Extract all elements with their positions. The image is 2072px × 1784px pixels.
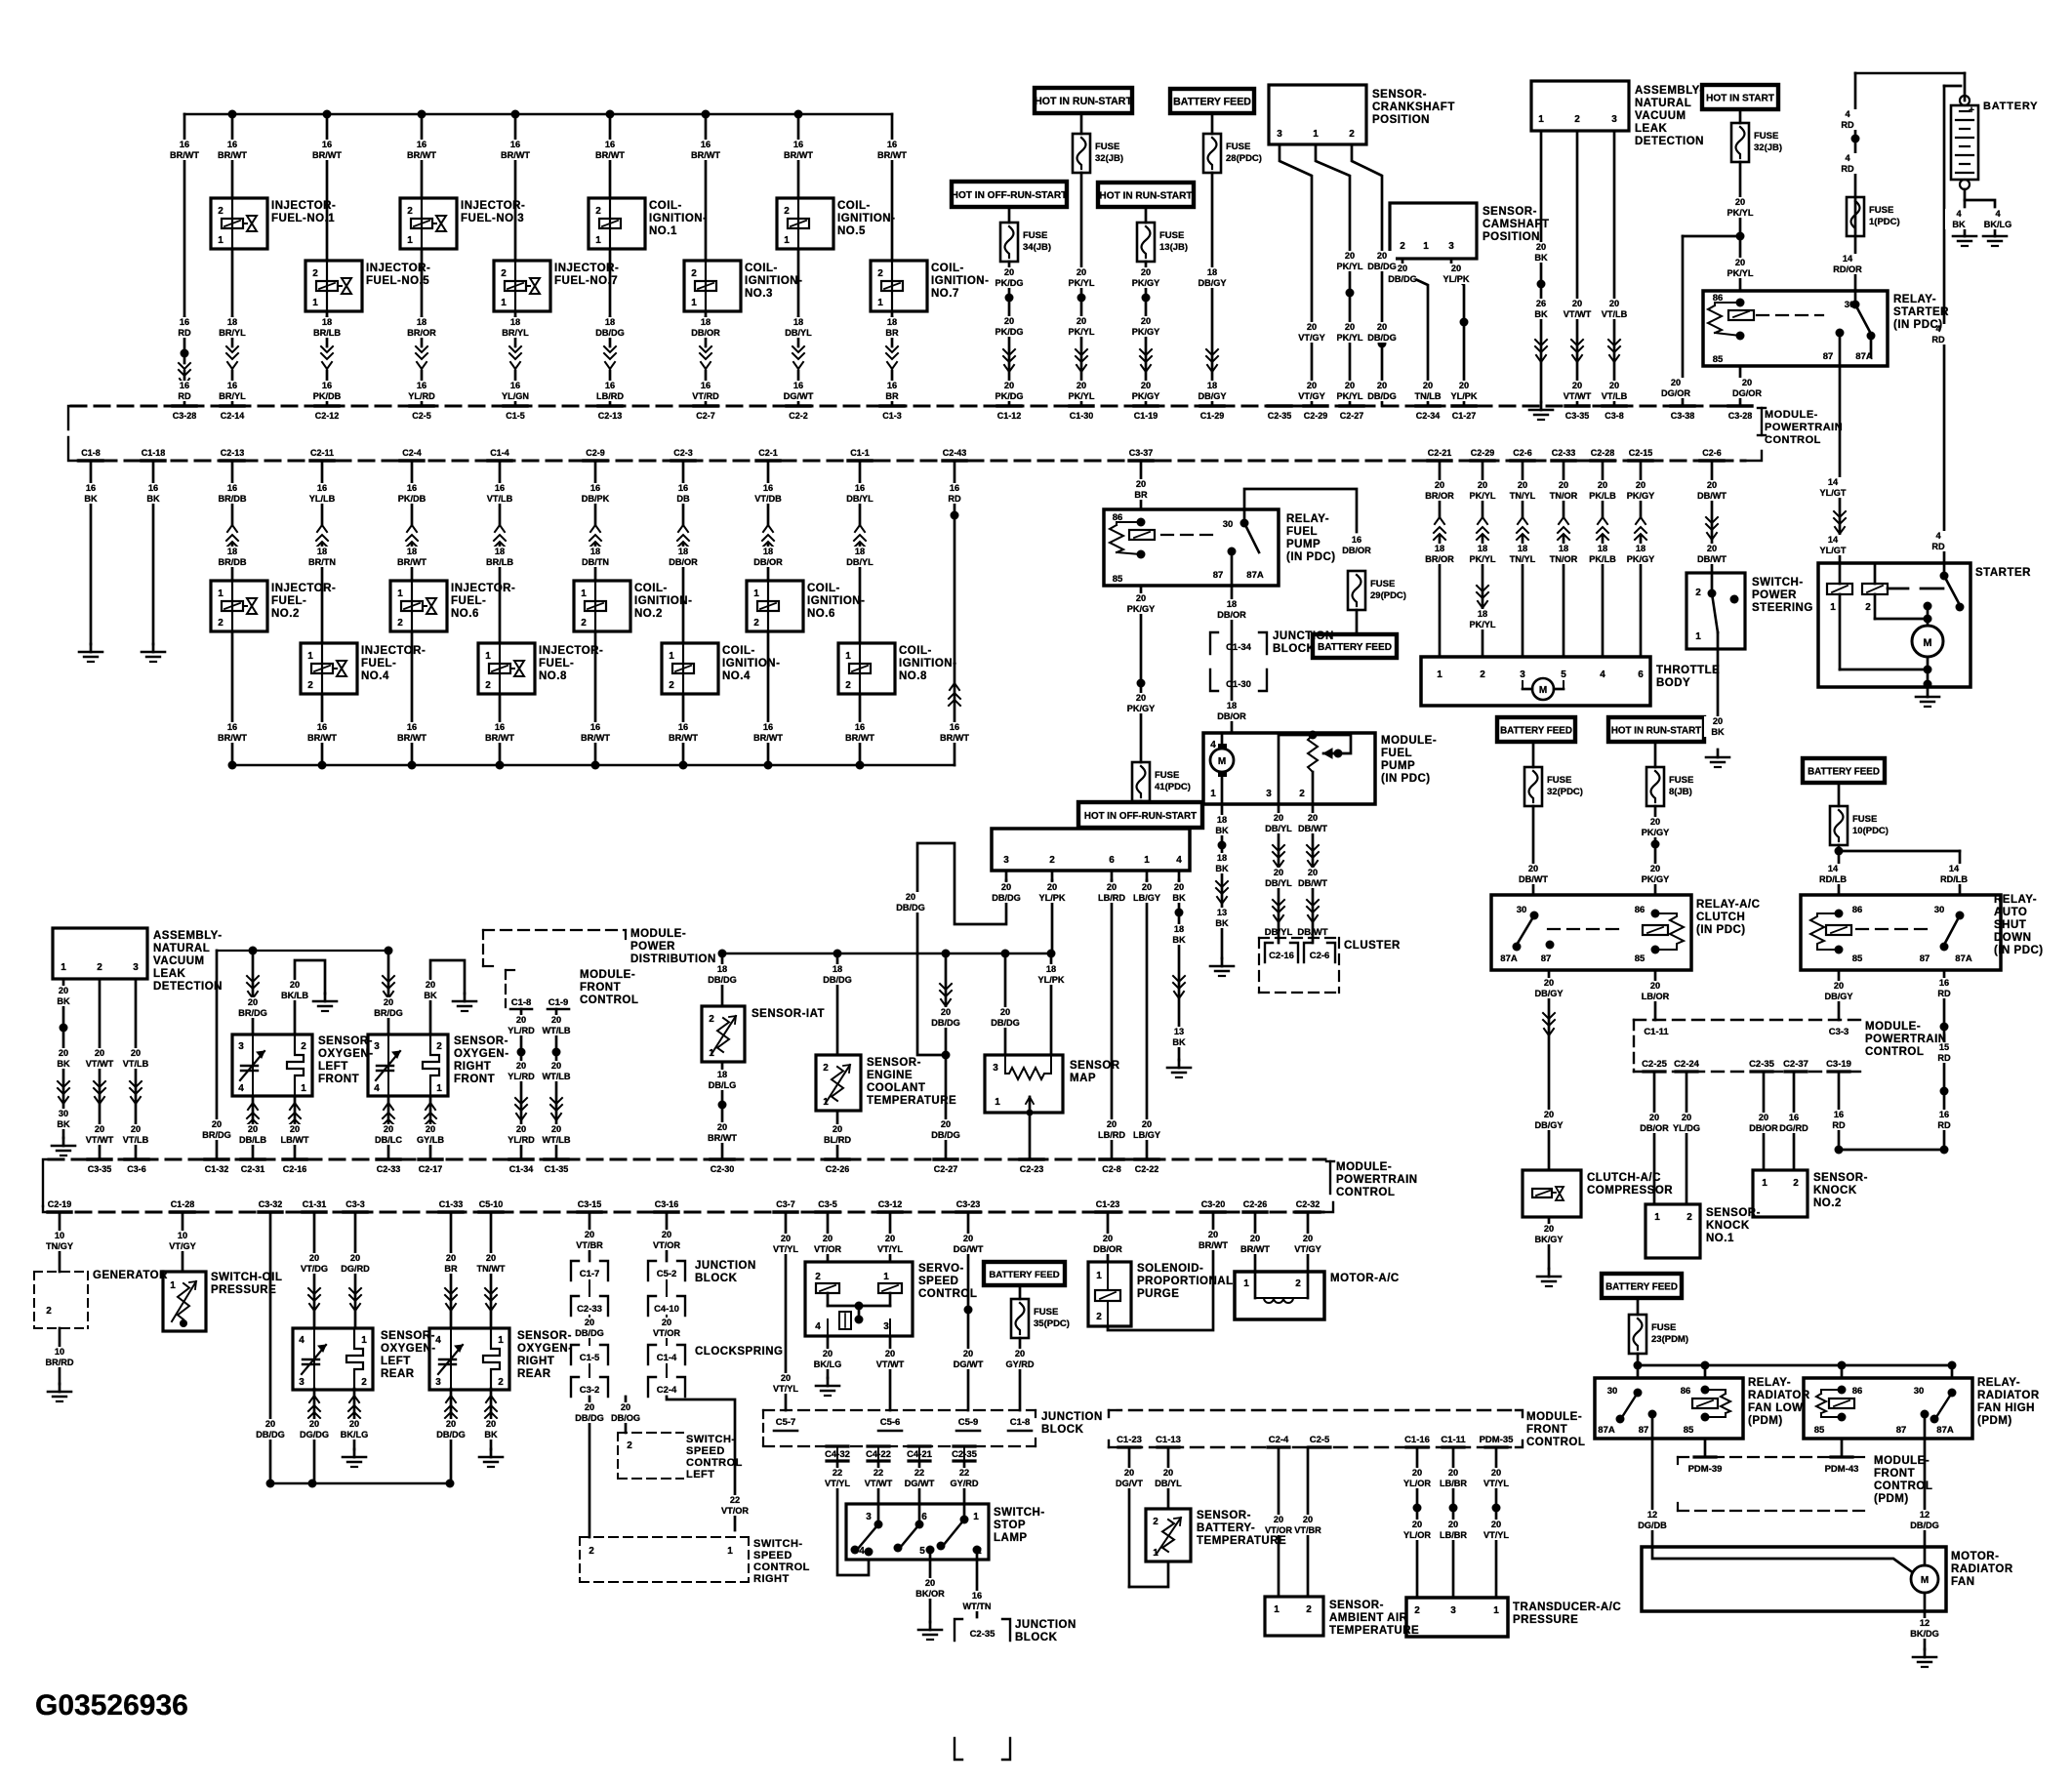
svg-text:20: 20 [426, 1124, 435, 1134]
svg-text:BK: BK [57, 1119, 70, 1129]
svg-text:NO.4: NO.4 [361, 670, 389, 682]
svg-text:20: 20 [350, 1253, 360, 1263]
svg-text:IGNITION-: IGNITION- [722, 658, 780, 669]
svg-text:5: 5 [1561, 669, 1566, 680]
svg-text:DB/OR: DB/OR [1093, 1244, 1122, 1254]
svg-text:YL/GT: YL/GT [1819, 488, 1846, 498]
svg-text:2: 2 [691, 268, 697, 279]
svg-text:20: 20 [1435, 480, 1444, 490]
svg-text:COIL-: COIL- [745, 263, 778, 274]
svg-text:MODULE-: MODULE- [1865, 1021, 1921, 1033]
svg-text:FUSE: FUSE [1651, 1322, 1676, 1333]
svg-text:20: 20 [1308, 868, 1318, 877]
svg-text:C2-29: C2-29 [1304, 411, 1328, 421]
svg-text:DB/DG: DB/DG [708, 975, 737, 985]
svg-text:COIL-: COIL- [722, 645, 755, 657]
svg-text:20: 20 [1136, 479, 1146, 489]
svg-text:BR/WT: BR/WT [877, 150, 907, 160]
svg-text:5: 5 [919, 1546, 925, 1557]
svg-text:1: 1 [709, 1048, 714, 1059]
svg-text:SOLENOID-: SOLENOID- [1137, 1263, 1203, 1275]
svg-text:BR/WT: BR/WT [218, 150, 247, 160]
svg-text:VT/OR: VT/OR [721, 1506, 749, 1516]
svg-text:CLOCKSPRING: CLOCKSPRING [695, 1346, 783, 1358]
svg-text:SENSOR-: SENSOR- [517, 1330, 572, 1342]
svg-text:1: 1 [397, 588, 403, 599]
svg-text:VT/OR: VT/OR [653, 1328, 680, 1338]
svg-text:SENSOR-: SENSOR- [867, 1057, 921, 1069]
svg-text:DB/OR: DB/OR [753, 557, 783, 567]
svg-text:RD: RD [1841, 164, 1854, 174]
svg-text:DB/WT: DB/WT [1298, 824, 1327, 833]
svg-text:C3-20: C3-20 [1201, 1199, 1226, 1209]
svg-text:C2-13: C2-13 [221, 448, 245, 458]
svg-text:YL/RD: YL/RD [508, 1072, 535, 1081]
svg-text:2: 2 [976, 1546, 982, 1557]
svg-text:1(PDC): 1(PDC) [1869, 217, 1900, 227]
svg-text:FUEL-NO.5: FUEL-NO.5 [366, 275, 429, 287]
svg-text:16: 16 [322, 140, 332, 149]
svg-text:DB/DG: DB/DG [896, 903, 925, 912]
svg-text:PK/YL: PK/YL [1469, 491, 1495, 501]
svg-text:1: 1 [436, 1083, 442, 1094]
svg-text:2: 2 [498, 1377, 504, 1388]
svg-text:2: 2 [1574, 114, 1580, 125]
svg-text:3: 3 [1520, 669, 1525, 680]
svg-text:18: 18 [1636, 544, 1645, 553]
svg-text:20: 20 [551, 1061, 561, 1071]
svg-text:IGNITION-: IGNITION- [634, 595, 692, 607]
svg-text:BK: BK [484, 1430, 498, 1439]
svg-text:(IN PDC): (IN PDC) [1893, 319, 1943, 331]
svg-text:3: 3 [993, 1063, 998, 1074]
svg-text:INJECTOR-: INJECTOR- [271, 200, 336, 212]
svg-text:1: 1 [823, 1097, 829, 1108]
svg-text:C1-30: C1-30 [1070, 411, 1094, 421]
svg-text:VT/RD: VT/RD [692, 391, 719, 401]
svg-text:SENSOR-: SENSOR- [1706, 1207, 1761, 1219]
svg-text:BR/WT: BR/WT [691, 150, 720, 160]
svg-text:DB/WT: DB/WT [1298, 878, 1327, 888]
svg-text:87A: 87A [1598, 1425, 1615, 1436]
svg-text:AUTO: AUTO [1994, 907, 2027, 918]
svg-text:SWITCH-OIL: SWITCH-OIL [211, 1272, 282, 1283]
svg-text:20: 20 [1141, 267, 1151, 277]
svg-text:CONTROL: CONTROL [686, 1457, 743, 1469]
svg-text:COIL-: COIL- [634, 583, 668, 594]
svg-text:C3-38: C3-38 [1671, 411, 1695, 421]
svg-text:BK: BK [424, 991, 437, 1000]
svg-text:20: 20 [1412, 1468, 1422, 1478]
svg-text:FUSE: FUSE [1155, 770, 1179, 781]
svg-text:DB: DB [676, 494, 690, 504]
svg-text:85: 85 [1684, 1425, 1694, 1436]
svg-text:1: 1 [407, 235, 413, 246]
svg-text:BK: BK [1534, 253, 1548, 263]
svg-text:4: 4 [374, 1083, 380, 1094]
svg-text:FRONT: FRONT [580, 982, 621, 993]
svg-text:C1-5: C1-5 [580, 1353, 600, 1363]
svg-text:BR/OR: BR/OR [1425, 554, 1454, 564]
svg-text:BR: BR [885, 391, 899, 401]
svg-text:BR/WT: BR/WT [595, 150, 625, 160]
svg-text:(PDM): (PDM) [1748, 1415, 1783, 1427]
svg-text:SENSOR-: SENSOR- [318, 1035, 373, 1047]
svg-text:TN/OR: TN/OR [1550, 554, 1578, 564]
svg-text:C1-19: C1-19 [1134, 411, 1158, 421]
svg-text:BR/WT: BR/WT [1240, 1244, 1270, 1254]
svg-text:BR: BR [444, 1264, 458, 1274]
svg-text:C2-19: C2-19 [48, 1199, 72, 1209]
svg-text:RELAY-A/C: RELAY-A/C [1696, 899, 1760, 911]
svg-text:BK/LG: BK/LG [341, 1430, 369, 1439]
svg-text:CAMSHAFT: CAMSHAFT [1483, 219, 1550, 230]
svg-text:CLUSTER: CLUSTER [1344, 940, 1401, 952]
svg-text:20: 20 [1544, 978, 1554, 988]
svg-text:LB/RD: LB/RD [1098, 1130, 1125, 1140]
svg-text:C1-27: C1-27 [1452, 411, 1477, 421]
svg-text:20: 20 [1208, 1230, 1218, 1239]
svg-text:DB/YL: DB/YL [846, 557, 873, 567]
svg-text:GY/RD: GY/RD [1005, 1359, 1034, 1369]
svg-text:C2-16: C2-16 [1269, 951, 1294, 961]
svg-text:20: 20 [1141, 381, 1151, 390]
svg-text:PK/YL: PK/YL [1336, 333, 1362, 343]
svg-text:C1-13: C1-13 [1156, 1435, 1181, 1445]
svg-text:CONTROL: CONTROL [1336, 1187, 1395, 1198]
svg-text:SENSOR-IAT: SENSOR-IAT [752, 1008, 825, 1020]
svg-text:DB/DG: DB/DG [575, 1413, 604, 1423]
svg-text:CONTROL: CONTROL [580, 994, 638, 1006]
svg-text:20: 20 [1572, 381, 1582, 390]
svg-text:20: 20 [1307, 381, 1317, 390]
svg-text:16: 16 [407, 483, 417, 493]
svg-text:C2-11: C2-11 [310, 448, 334, 458]
svg-text:C2-22: C2-22 [1135, 1164, 1159, 1174]
svg-text:20: 20 [1174, 882, 1184, 892]
svg-text:C1-23: C1-23 [1117, 1435, 1142, 1445]
svg-text:BK/LG: BK/LG [1984, 220, 2012, 229]
svg-text:22: 22 [873, 1468, 883, 1478]
svg-text:18: 18 [1207, 381, 1217, 390]
svg-text:18: 18 [1174, 924, 1184, 934]
svg-text:BR/WT: BR/WT [407, 150, 436, 160]
svg-text:2: 2 [307, 680, 313, 691]
svg-text:3: 3 [1003, 855, 1009, 866]
svg-text:C2-4: C2-4 [402, 448, 422, 458]
svg-text:20: 20 [1491, 1520, 1501, 1529]
svg-text:BK: BK [1215, 918, 1229, 928]
svg-text:M: M [1923, 637, 1931, 649]
svg-text:BK: BK [1172, 935, 1186, 945]
svg-text:32(JB): 32(JB) [1095, 153, 1123, 164]
svg-text:IGNITION-: IGNITION- [899, 658, 956, 669]
svg-text:TEMPERATURE: TEMPERATURE [867, 1095, 956, 1107]
svg-text:2: 2 [312, 268, 318, 279]
svg-text:CLUTCH: CLUTCH [1696, 912, 1745, 923]
svg-text:PRESSURE: PRESSURE [1513, 1614, 1578, 1626]
svg-text:YL/PK: YL/PK [1442, 274, 1469, 284]
svg-text:16: 16 [227, 381, 237, 390]
svg-text:20: 20 [265, 1419, 275, 1429]
svg-text:20: 20 [1303, 1515, 1313, 1524]
svg-text:20: 20 [1004, 267, 1014, 277]
svg-text:14: 14 [1828, 477, 1839, 487]
svg-text:2: 2 [815, 1272, 821, 1282]
svg-text:13: 13 [1217, 908, 1227, 917]
svg-text:2: 2 [1865, 602, 1871, 613]
svg-text:NO.2: NO.2 [271, 608, 300, 620]
svg-text:C5-10: C5-10 [479, 1199, 504, 1209]
svg-text:PK/GY: PK/GY [1642, 874, 1670, 884]
svg-text:DB/GY: DB/GY [1534, 1120, 1563, 1130]
svg-text:FRONT: FRONT [1526, 1424, 1567, 1436]
svg-text:85: 85 [1852, 953, 1863, 964]
svg-text:20: 20 [963, 1234, 973, 1243]
svg-text:JUNCTION: JUNCTION [1041, 1411, 1103, 1423]
svg-text:20: 20 [1103, 1234, 1113, 1243]
svg-text:JUNCTION: JUNCTION [1273, 630, 1334, 642]
svg-text:20: 20 [384, 1124, 393, 1134]
svg-text:1: 1 [973, 1512, 979, 1522]
svg-text:1: 1 [1654, 1212, 1660, 1223]
svg-text:DB/GY: DB/GY [1198, 278, 1226, 288]
svg-text:BR/WT: BR/WT [312, 150, 342, 160]
svg-text:DB/DG: DB/DG [436, 1430, 466, 1439]
svg-text:C1-12: C1-12 [997, 411, 1022, 421]
svg-text:20: 20 [349, 1419, 359, 1429]
svg-text:BR/WT: BR/WT [581, 733, 610, 743]
svg-text:INJECTOR-: INJECTOR- [361, 645, 426, 657]
svg-text:C3-23: C3-23 [956, 1199, 981, 1209]
svg-text:20: 20 [1377, 251, 1387, 261]
svg-text:20: 20 [1303, 1234, 1313, 1243]
svg-text:WT/LB: WT/LB [542, 1072, 570, 1081]
svg-text:PK/DG: PK/DG [995, 391, 1023, 401]
svg-text:20: 20 [290, 980, 300, 990]
svg-text:C1-34: C1-34 [509, 1164, 534, 1174]
svg-text:DB/GY: DB/GY [1534, 989, 1563, 998]
svg-text:PK/YL: PK/YL [1068, 391, 1094, 401]
svg-text:DG/WT: DG/WT [784, 391, 814, 401]
svg-text:TRANSDUCER-A/C: TRANSDUCER-A/C [1513, 1602, 1621, 1613]
svg-text:STARTER: STARTER [1893, 306, 1949, 318]
svg-text:BATTERY: BATTERY [1983, 101, 2038, 112]
svg-text:BATTERY-: BATTERY- [1197, 1522, 1255, 1534]
svg-text:VT/LB: VT/LB [487, 494, 513, 504]
svg-text:BK: BK [1215, 826, 1229, 835]
svg-text:VT/WT: VT/WT [865, 1479, 893, 1488]
svg-text:VT/YL: VT/YL [877, 1244, 903, 1254]
svg-text:16: 16 [317, 483, 327, 493]
svg-text:SENSOR: SENSOR [1070, 1060, 1120, 1072]
svg-text:INJECTOR-: INJECTOR- [554, 263, 619, 274]
svg-text:PRESSURE: PRESSURE [211, 1284, 276, 1296]
svg-text:4: 4 [1845, 109, 1850, 119]
svg-text:LEFT: LEFT [318, 1061, 348, 1073]
svg-text:16: 16 [793, 140, 803, 149]
svg-text:18: 18 [855, 547, 865, 556]
svg-text:2: 2 [1096, 1312, 1102, 1322]
svg-text:FRONT: FRONT [454, 1074, 495, 1085]
svg-text:BK: BK [57, 996, 70, 1006]
svg-text:16: 16 [86, 483, 96, 493]
svg-text:POSITION: POSITION [1372, 114, 1430, 126]
svg-text:FUSE: FUSE [1669, 775, 1693, 786]
svg-text:SENSOR-: SENSOR- [381, 1330, 435, 1342]
svg-text:16: 16 [678, 483, 688, 493]
svg-text:JUNCTION: JUNCTION [1015, 1619, 1077, 1631]
svg-text:OXYGEN-: OXYGEN- [381, 1343, 436, 1355]
svg-text:20: 20 [1451, 264, 1461, 273]
svg-text:20: 20 [1650, 981, 1660, 991]
svg-text:NO.1: NO.1 [1706, 1233, 1734, 1244]
svg-text:RD/LB: RD/LB [1819, 874, 1847, 884]
svg-text:16: 16 [763, 722, 773, 732]
svg-text:NO.7: NO.7 [931, 288, 959, 300]
svg-text:FAN LOW: FAN LOW [1748, 1402, 1804, 1414]
svg-text:RELAY-: RELAY- [1977, 1377, 2020, 1389]
svg-text:18: 18 [1207, 267, 1217, 277]
svg-text:NO.5: NO.5 [837, 225, 866, 237]
svg-text:DB/LG: DB/LG [709, 1080, 737, 1090]
svg-text:C3-3: C3-3 [345, 1199, 365, 1209]
svg-text:20: 20 [1682, 1113, 1691, 1122]
svg-text:BR: BR [885, 328, 899, 338]
svg-text:INJECTOR-: INJECTOR- [271, 583, 336, 594]
svg-text:16: 16 [1352, 535, 1361, 545]
svg-text:MODULE-: MODULE- [630, 928, 686, 940]
svg-text:1: 1 [1830, 602, 1836, 613]
svg-text:C2-3: C2-3 [673, 448, 693, 458]
svg-text:22: 22 [959, 1468, 969, 1478]
svg-text:DB/GY: DB/GY [1824, 992, 1852, 1001]
svg-text:1: 1 [312, 298, 318, 308]
svg-text:DB/DG: DB/DG [256, 1430, 285, 1439]
svg-text:GENERATOR: GENERATOR [93, 1270, 168, 1281]
svg-text:20: 20 [1412, 1520, 1422, 1529]
svg-text:87: 87 [1823, 351, 1834, 362]
svg-text:BK: BK [1952, 220, 1966, 229]
svg-text:1: 1 [1096, 1271, 1102, 1281]
svg-text:C2-17: C2-17 [419, 1164, 443, 1174]
svg-text:20: 20 [662, 1230, 671, 1239]
svg-text:DG/OR: DG/OR [1732, 388, 1762, 398]
svg-text:SWITCH-: SWITCH- [686, 1434, 736, 1445]
svg-text:SPEED: SPEED [753, 1550, 792, 1561]
svg-text:VT/YL: VT/YL [773, 1384, 798, 1394]
svg-text:1: 1 [727, 1546, 733, 1557]
svg-text:18: 18 [763, 547, 773, 556]
svg-text:30: 30 [1845, 300, 1855, 310]
svg-text:C3-2: C3-2 [580, 1385, 600, 1396]
svg-text:OXYGEN-: OXYGEN- [454, 1048, 509, 1060]
svg-text:C1-8: C1-8 [81, 448, 101, 458]
svg-text:1: 1 [753, 588, 759, 599]
svg-text:BR/WT: BR/WT [753, 733, 783, 743]
svg-text:WT/LB: WT/LB [542, 1135, 570, 1145]
svg-text:BK/LB: BK/LB [281, 991, 308, 1000]
svg-text:VT/WT: VT/WT [876, 1359, 905, 1369]
svg-text:1: 1 [1144, 855, 1150, 866]
svg-text:2: 2 [1049, 855, 1055, 866]
svg-text:PK/GY: PK/GY [1627, 554, 1655, 564]
svg-text:BK/GY: BK/GY [1534, 1235, 1563, 1244]
svg-text:RD: RD [1937, 1120, 1951, 1130]
svg-text:C1-31: C1-31 [303, 1199, 327, 1209]
svg-text:3: 3 [133, 962, 139, 973]
svg-text:6: 6 [1109, 855, 1115, 866]
svg-text:1: 1 [1437, 669, 1442, 680]
svg-text:WT/TN: WT/TN [962, 1602, 991, 1611]
svg-text:22: 22 [914, 1468, 924, 1478]
svg-text:C4-32: C4-32 [825, 1449, 850, 1460]
svg-text:TN/YL: TN/YL [1510, 554, 1536, 564]
svg-text:16: 16 [180, 317, 189, 327]
svg-text:BK: BK [1172, 893, 1186, 903]
svg-text:(IN PDC): (IN PDC) [1381, 773, 1431, 785]
svg-text:16: 16 [855, 483, 865, 493]
svg-text:20: 20 [59, 1048, 68, 1058]
svg-text:C2-27: C2-27 [1340, 411, 1364, 421]
svg-text:PK/YL: PK/YL [1068, 278, 1094, 288]
svg-text:TN/GY: TN/GY [46, 1241, 73, 1251]
svg-text:DB/YL: DB/YL [846, 494, 873, 504]
svg-text:20: 20 [486, 1419, 496, 1429]
svg-text:C3-16: C3-16 [655, 1199, 679, 1209]
svg-text:20: 20 [1448, 1468, 1458, 1478]
svg-text:PK/YL: PK/YL [1469, 620, 1495, 629]
svg-text:20: 20 [426, 980, 435, 990]
svg-text:20: 20 [486, 1253, 496, 1263]
svg-text:FRONT: FRONT [318, 1074, 359, 1085]
svg-text:RD: RD [1937, 989, 1951, 998]
svg-text:32(JB): 32(JB) [1754, 142, 1782, 153]
svg-text:BR/WT: BR/WT [218, 733, 247, 743]
svg-text:C3-35: C3-35 [88, 1164, 112, 1174]
svg-text:2: 2 [1299, 789, 1305, 799]
svg-text:C3-32: C3-32 [259, 1199, 283, 1209]
svg-text:FUSE: FUSE [1370, 579, 1395, 589]
svg-text:20: 20 [551, 1124, 561, 1134]
svg-text:20: 20 [941, 1119, 951, 1129]
svg-text:2: 2 [589, 1546, 594, 1557]
svg-text:G03526936: G03526936 [35, 1689, 188, 1722]
svg-text:C1-16: C1-16 [1404, 1435, 1430, 1445]
svg-text:C2-8: C2-8 [1102, 1164, 1121, 1174]
svg-text:18: 18 [833, 964, 842, 974]
svg-text:28(PDC): 28(PDC) [1226, 153, 1262, 164]
svg-text:GY/LB: GY/LB [417, 1135, 444, 1145]
svg-text:NO.3: NO.3 [745, 288, 773, 300]
svg-text:C2-30: C2-30 [711, 1164, 735, 1174]
svg-text:2: 2 [753, 618, 759, 628]
svg-text:18: 18 [1217, 815, 1227, 825]
svg-text:20: 20 [248, 997, 258, 1007]
svg-text:20: 20 [1609, 299, 1619, 308]
svg-text:C2-6: C2-6 [1513, 448, 1532, 458]
svg-text:18: 18 [1478, 544, 1487, 553]
svg-text:2: 2 [1480, 669, 1485, 680]
svg-text:16: 16 [793, 381, 803, 390]
svg-text:IGNITION-: IGNITION- [837, 213, 895, 224]
svg-text:TN/YL: TN/YL [1510, 491, 1536, 501]
svg-text:DB/OR: DB/OR [669, 557, 698, 567]
svg-text:DB/OG: DB/OG [611, 1413, 640, 1423]
svg-text:BR/DB: BR/DB [218, 557, 246, 567]
svg-text:SWITCH-: SWITCH- [753, 1538, 803, 1550]
svg-text:C2-33: C2-33 [1552, 448, 1576, 458]
